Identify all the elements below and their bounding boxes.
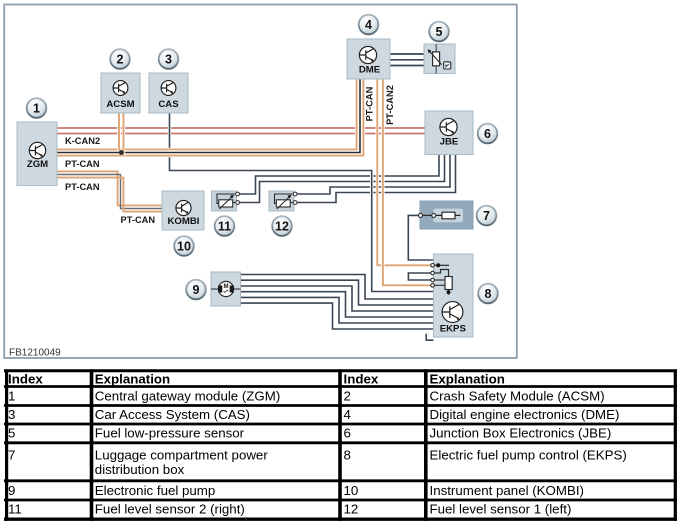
box labels <box>27 65 467 335</box>
svg-text:6: 6 <box>344 426 351 441</box>
svg-text:8: 8 <box>485 287 492 301</box>
svg-text:EKPS: EKPS <box>440 324 467 335</box>
EKPS internal resistor <box>445 277 452 290</box>
svg-text:6: 6 <box>484 127 491 141</box>
sensor box 11 (fuel level sensor 2 right) <box>212 191 237 211</box>
index circle 8 <box>478 284 498 304</box>
EKPS terminal 1 <box>431 264 435 268</box>
index circle 2 <box>110 49 130 69</box>
EKPS internal junction dots <box>436 263 450 294</box>
box7 fuse <box>419 212 461 219</box>
index circle 4 <box>359 15 379 35</box>
svg-text:PT-CAN: PT-CAN <box>121 215 156 225</box>
svg-text:11: 11 <box>218 219 231 233</box>
control unit KOMBI box <box>162 191 204 230</box>
index circle 1 <box>27 98 47 118</box>
svg-text:Index: Index <box>8 372 43 387</box>
LABELS <box>65 136 155 225</box>
EKPS terminal 2 <box>431 271 435 275</box>
box5 pressure sensor icon <box>428 44 451 74</box>
svg-text:10: 10 <box>344 483 359 498</box>
sensor 12 icon <box>275 192 298 209</box>
svg-text:Explanation: Explanation <box>430 372 505 387</box>
svg-text:ACSM: ACSM <box>106 99 134 110</box>
svg-text:M: M <box>224 284 229 290</box>
wire pump m5 <box>241 297 434 323</box>
svg-text:2: 2 <box>344 388 351 403</box>
svg-text:CAS: CAS <box>158 99 179 110</box>
svg-text:7: 7 <box>8 447 15 462</box>
svg-text:Electric fuel pump control (EK: Electric fuel pump control (EKPS) <box>430 447 627 462</box>
svg-text:Fuel low-pressure sensor: Fuel low-pressure sensor <box>95 426 245 441</box>
transistor icon ACSM <box>113 81 128 96</box>
svg-text:Fuel level sensor 2 (right): Fuel level sensor 2 (right) <box>95 502 245 517</box>
index circle 10 <box>174 236 194 256</box>
transistor icon CAS <box>161 81 176 96</box>
svg-text:12: 12 <box>275 219 289 233</box>
svg-text:Car Access System (CAS): Car Access System (CAS) <box>95 407 250 422</box>
control unit CAS box <box>149 73 188 113</box>
svg-text:FB1210049: FB1210049 <box>9 348 61 359</box>
TABLE <box>4 369 677 521</box>
svg-text:11: 11 <box>8 502 22 517</box>
svg-text:1: 1 <box>33 101 40 115</box>
transistor icon JBE <box>440 118 457 135</box>
svg-text:Fuel level sensor 1 (left): Fuel level sensor 1 (left) <box>430 502 572 517</box>
wire sensor11 top to JBE <box>237 155 439 195</box>
svg-text:10: 10 <box>177 239 191 253</box>
transistor icon ZGM <box>29 142 45 158</box>
index circle 5 <box>429 22 449 42</box>
wire CAS to EKPS <box>170 113 434 292</box>
sensor box 5 (fuel low-pressure sensor) <box>424 44 455 74</box>
svg-text:Digital engine electronics (DM: Digital engine electronics (DME) <box>430 407 620 422</box>
svg-text:9: 9 <box>8 483 15 498</box>
EKPS ground bracket <box>426 334 433 341</box>
svg-text:5: 5 <box>436 25 443 39</box>
index circle 6 <box>478 124 498 144</box>
wire sensor12 top to JBE <box>295 155 450 195</box>
svg-text:Central gateway module (ZGM): Central gateway module (ZGM) <box>95 388 280 403</box>
svg-text:Crash Safety Module (ACSM): Crash Safety Module (ACSM) <box>430 388 605 403</box>
label PT-CAN vertical at DME <box>365 86 375 121</box>
svg-text:4: 4 <box>365 18 372 32</box>
svg-text:PT-CAN: PT-CAN <box>365 86 375 121</box>
svg-text:9: 9 <box>193 283 200 297</box>
svg-text:distribution box: distribution box <box>95 462 185 477</box>
svg-text:7: 7 <box>483 209 490 223</box>
svg-text:PT-CAN: PT-CAN <box>65 159 100 169</box>
control unit ACSM box <box>101 73 140 113</box>
svg-text:5: 5 <box>8 426 15 441</box>
wire PT-CAN2 line B (DME to EKPS t4) <box>383 79 431 285</box>
EKPS terminal 3 <box>431 278 435 282</box>
svg-text:DME: DME <box>359 65 381 76</box>
wire fuse box7 to EKPS <box>408 215 433 260</box>
diagram frame <box>4 5 517 359</box>
pump icon in box 9 <box>211 281 241 296</box>
junction dot ACSM/PT-CAN <box>119 150 124 155</box>
svg-text:Instrument panel (KOMBI): Instrument panel (KOMBI) <box>430 483 584 498</box>
svg-text:KOMBI: KOMBI <box>168 216 200 227</box>
index circle 3 <box>159 49 179 69</box>
transistor icon EKPS <box>442 302 463 323</box>
wire ACSM drop to PT-CAN <box>119 113 124 156</box>
wire PT-CAN ZGM to KOMBI <box>57 171 162 211</box>
index circle 7 <box>477 206 497 226</box>
wire pump m2 <box>241 280 434 305</box>
svg-text:Electronic fuel pump: Electronic fuel pump <box>95 483 215 498</box>
svg-text:ZGM: ZGM <box>27 159 48 170</box>
svg-text:8: 8 <box>344 447 351 462</box>
control unit ZGM box <box>17 122 57 186</box>
wire K-CAN2 (red pair ZGM to JBE) <box>57 128 425 134</box>
wire jumper loop EKPS t2-t3 <box>408 273 432 280</box>
svg-text:1: 1 <box>8 388 15 403</box>
wire sensor11 bottom to JBE <box>237 155 445 203</box>
index circle 9 <box>186 280 206 300</box>
label PT-CAN2 vertical at DME <box>385 85 395 125</box>
transistor icon DME <box>359 46 376 63</box>
svg-text:Explanation: Explanation <box>95 372 170 387</box>
EKPS terminal 4 <box>431 284 435 288</box>
svg-text:Junction Box Electronics (JBE): Junction Box Electronics (JBE) <box>430 426 612 441</box>
svg-text:JBE: JBE <box>440 137 459 148</box>
svg-text:2: 2 <box>117 52 124 66</box>
transistor icon KOMBI <box>176 200 191 215</box>
svg-text:K-CAN2: K-CAN2 <box>65 136 100 146</box>
control unit JBE box <box>425 111 473 155</box>
sensor box 12 (fuel level sensor 1 left) <box>269 191 294 211</box>
sensor 11 icon <box>217 192 240 209</box>
wire DME to fuel low-pressure sensor (3 lines) <box>390 54 424 66</box>
index circle 12 <box>272 216 292 236</box>
wire pump m1 <box>241 275 434 300</box>
index circle 11 <box>215 216 235 236</box>
svg-text:Index: Index <box>344 372 379 387</box>
svg-text:3: 3 <box>8 407 15 422</box>
wire pump m3 <box>241 286 434 311</box>
wire pump m6 <box>241 303 434 329</box>
wire PT-CAN2 line A (DME to EKPS t1) <box>377 79 430 265</box>
svg-text:12: 12 <box>344 502 359 517</box>
svg-text:Luggage compartment power: Luggage compartment power <box>95 447 269 462</box>
pump box 9 (electronic fuel pump) <box>211 272 241 306</box>
control unit EKPS box <box>434 254 474 337</box>
label FB1210049 <box>9 348 61 359</box>
svg-text:3: 3 <box>165 52 172 66</box>
wire pump m4 <box>241 292 434 317</box>
svg-text:PT-CAN2: PT-CAN2 <box>385 85 395 125</box>
box 7 luggage compartment power distribution box <box>420 201 473 229</box>
wire sensor12 bottom to JBE <box>295 155 456 203</box>
control unit DME box <box>347 39 390 79</box>
EKPS internal circuit <box>435 265 449 295</box>
svg-text:4: 4 <box>344 407 351 422</box>
svg-text:PT-CAN: PT-CAN <box>65 182 100 192</box>
wire PT-CAN bus ZGM to DME <box>57 79 363 156</box>
